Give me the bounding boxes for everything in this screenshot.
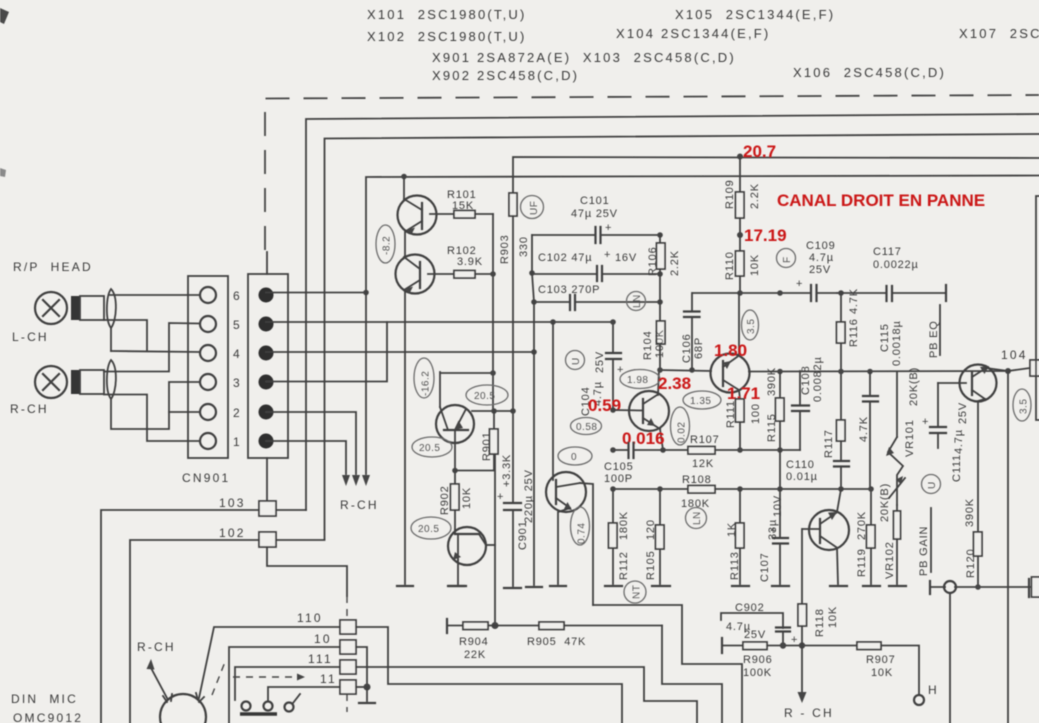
svg-text:PB EQ: PB EQ — [928, 320, 940, 358]
C109 label — [806, 240, 836, 276]
node C102/R106 — [657, 271, 663, 277]
svg-text:3.5: 3.5 — [746, 319, 757, 334]
wire 103 left long — [101, 510, 259, 723]
node 11/ground — [364, 684, 371, 691]
svg-text:+3.3K: +3.3K — [501, 454, 513, 487]
wire X901 top to stage rail — [441, 372, 493, 374]
svg-text:10V: 10V — [772, 495, 784, 517]
svg-text:25V: 25V — [744, 629, 766, 641]
svg-text:120: 120 — [645, 519, 657, 540]
node C115 top — [867, 369, 873, 375]
resistor R907 — [857, 642, 919, 695]
circled F — [777, 249, 796, 268]
wire bus2 — [325, 134, 1039, 539]
svg-text:NT: NT — [632, 585, 643, 599]
wire y370 mid — [659, 370, 711, 371]
svg-text:390K: 390K — [766, 367, 778, 396]
svg-text:R903: R903 — [499, 235, 511, 265]
ground X902 — [449, 585, 466, 587]
resistor R115 — [766, 367, 784, 450]
svg-text:5: 5 — [233, 318, 242, 332]
capacitor C110 — [786, 459, 849, 489]
resistor R904 — [447, 619, 539, 661]
capacitor C117 — [873, 246, 946, 301]
resistor R116 — [837, 288, 861, 420]
svg-text:R120: R120 — [965, 549, 977, 579]
filled pins — [259, 288, 274, 449]
resistor R113 — [726, 489, 744, 584]
wire 103 right to bus1 — [276, 509, 306, 511]
node R113 top — [737, 486, 743, 492]
svg-text:1: 1 — [233, 435, 242, 449]
svg-text:3.5: 3.5 — [1019, 399, 1030, 414]
capacitor C102 — [532, 249, 657, 281]
svg-text:68P: 68P — [693, 337, 705, 359]
svg-text:+: + — [796, 278, 803, 290]
svg-text:0: 0 — [571, 452, 577, 463]
capacitor C105 — [604, 443, 634, 485]
oval -16.2 — [414, 358, 434, 398]
svg-text:-8.2: -8.2 — [382, 236, 393, 255]
transistor X106 — [803, 489, 849, 584]
wire head2 shield to pin2/pin3 — [111, 382, 200, 429]
wire 11 left to switch — [268, 687, 340, 700]
transistor X102 — [396, 232, 435, 294]
wire 102 down to dashed — [267, 547, 347, 596]
svg-text:0.02: 0.02 — [677, 422, 688, 443]
svg-text:+: + — [604, 249, 611, 261]
transistor X107 — [938, 365, 1008, 533]
svg-text:12K: 12K — [692, 458, 714, 470]
oval 20.5 b — [412, 437, 452, 457]
svg-text:R109: R109 — [724, 180, 736, 210]
svg-text:R - CH: R - CH — [784, 706, 834, 720]
mic lead to R-CH arrow — [147, 659, 168, 698]
node X901 emitter — [452, 468, 458, 474]
svg-text:3: 3 — [233, 376, 242, 390]
svg-text:20K(B): 20K(B) — [879, 483, 891, 522]
svg-text:15K: 15K — [452, 200, 474, 212]
node R115 top — [777, 369, 783, 375]
svg-text:R906: R906 — [743, 654, 773, 666]
svg-text:R117: R117 — [823, 429, 835, 458]
ground VR102 — [889, 585, 906, 587]
dashed link to terminal strip — [346, 596, 348, 712]
wire X902 collector rail — [494, 454, 496, 625]
wire node104 down — [1007, 371, 1009, 723]
resistor R902 — [439, 471, 473, 531]
svg-text:R112: R112 — [618, 551, 630, 580]
svg-text:180K: 180K — [618, 511, 630, 540]
capacitor C109 — [796, 278, 837, 301]
svg-text:10K: 10K — [827, 606, 839, 628]
svg-text:LN: LN — [632, 294, 643, 308]
svg-text:C109: C109 — [806, 240, 836, 252]
svg-text:104: 104 — [1001, 348, 1028, 362]
svg-text:R902: R902 — [439, 486, 451, 516]
node x871/y489 — [868, 486, 874, 492]
wire bus3 — [513, 157, 1039, 193]
svg-text:0.01µ: 0.01µ — [786, 471, 818, 483]
svg-text:0.58: 0.58 — [576, 422, 597, 433]
svg-text:25V: 25V — [957, 402, 969, 424]
svg-text:+: + — [605, 222, 612, 234]
svg-text:+: + — [770, 525, 777, 537]
wire head2 top to pin5 — [104, 323, 200, 372]
svg-text:CANAL DROIT EN PANNE: CANAL DROIT EN PANNE — [777, 191, 985, 210]
switch contacts — [240, 694, 300, 714]
wire head1 low to pin4 — [104, 320, 147, 351]
oval 1.35 — [683, 391, 721, 409]
transistor X902 — [448, 527, 495, 584]
svg-text:R/P HEAD: R/P HEAD — [13, 260, 93, 274]
transistor X104 — [546, 472, 593, 605]
node R108 left — [610, 486, 616, 492]
capacitor C103 — [534, 284, 657, 310]
svg-text:R110: R110 — [724, 251, 736, 280]
PB GAIN label — [918, 508, 931, 576]
svg-text:R108: R108 — [682, 474, 712, 486]
terminal strip squares — [340, 620, 356, 694]
svg-text:270K: 270K — [856, 511, 868, 540]
oval 0.58 — [571, 418, 602, 435]
wire above connector — [266, 252, 268, 274]
wire 110 right staircase — [356, 627, 622, 723]
wire R101-R102 rail — [492, 214, 494, 411]
svg-text:2.38: 2.38 — [658, 374, 691, 393]
wire pin1 to R-CH arrow — [266, 441, 346, 474]
svg-text:R116: R116 — [848, 318, 860, 347]
wire pin4 row right — [266, 351, 534, 353]
transistor X103 — [613, 370, 669, 450]
resistor R105 — [645, 489, 664, 584]
ground X106 — [830, 585, 847, 587]
node 17.19 — [737, 232, 743, 238]
C115 label — [879, 320, 903, 366]
node R111 bottom — [737, 447, 743, 453]
wire 10 right to ground — [356, 647, 367, 687]
resistor R901 — [481, 411, 513, 487]
trimmer VR101 — [886, 367, 920, 505]
node C110 bottom — [838, 486, 844, 492]
ground R119 — [863, 585, 880, 587]
node x553 — [550, 319, 556, 325]
svg-text:1K: 1K — [726, 522, 738, 537]
wire connector bottom to 103 — [266, 458, 268, 501]
oval 20.5 a — [466, 385, 508, 405]
capacitor C108 — [792, 356, 824, 450]
svg-text:0.0018µ: 0.0018µ — [891, 320, 903, 366]
svg-text:10K: 10K — [749, 254, 761, 276]
svg-text:C106: C106 — [681, 334, 693, 364]
wire X104 collector staircase — [593, 605, 742, 723]
R-CH arrowheads — [342, 475, 370, 486]
svg-text:R119: R119 — [856, 548, 868, 577]
wire 11 right — [356, 686, 367, 688]
svg-text:C115: C115 — [879, 323, 891, 352]
svg-text:PB GAIN: PB GAIN — [918, 526, 930, 576]
capacitor C902 — [776, 628, 798, 647]
connector CN901 left block — [188, 276, 228, 458]
svg-text:H: H — [928, 683, 939, 697]
svg-text:+: + — [497, 491, 504, 503]
node R116 top — [838, 290, 844, 296]
resistor R112 — [609, 489, 631, 584]
resistor R108 — [613, 474, 841, 510]
svg-text:3.9K: 3.9K — [457, 256, 483, 268]
wire y489 to R119 — [841, 489, 871, 525]
svg-text:25V: 25V — [594, 351, 606, 373]
wire head1 shield — [110, 328, 112, 351]
coil lens R — [107, 360, 116, 399]
node R110 bottom — [737, 290, 743, 296]
node C107 top — [777, 486, 783, 492]
resistor R906 — [722, 642, 857, 679]
svg-text:25V: 25V — [809, 264, 831, 276]
svg-text:102: 102 — [219, 526, 246, 540]
oval 0 — [558, 447, 592, 465]
svg-text:C110: C110 — [786, 459, 815, 471]
svg-text:+: + — [922, 416, 929, 428]
svg-text:C105: C105 — [604, 461, 634, 473]
input terminal bar R906 — [721, 638, 723, 653]
resistor R117 — [823, 416, 870, 461]
svg-text:C101: C101 — [580, 195, 610, 207]
svg-text:F: F — [782, 256, 793, 263]
svg-text:2.2K: 2.2K — [669, 250, 681, 276]
svg-text:R113: R113 — [729, 551, 741, 580]
svg-text:X102 2SC1980(T,U): X102 2SC1980(T,U) — [367, 29, 527, 44]
node 104 — [1005, 368, 1011, 374]
circled NT — [624, 581, 646, 603]
svg-text:180K: 180K — [681, 498, 710, 510]
wire C-rail left — [532, 235, 534, 585]
wire 102 right to bus2 — [276, 539, 325, 541]
svg-text:DIN MIC: DIN MIC — [11, 692, 78, 706]
svg-text:10: 10 — [314, 632, 332, 646]
wire R905 staircase — [662, 626, 722, 723]
svg-text:OMC9012: OMC9012 — [13, 711, 83, 723]
svg-text:R118: R118 — [814, 608, 826, 637]
oval -8.2 — [376, 225, 395, 263]
wire pin2 to R-CH arrow — [266, 412, 356, 474]
svg-text:20.5: 20.5 — [418, 524, 439, 535]
grounds row — [448, 585, 464, 587]
node R116/R117 rail — [838, 369, 844, 375]
node X103 emitter row — [660, 447, 666, 453]
oval 20.5 c — [411, 517, 451, 539]
wire bus4 down to R-CH arrow — [365, 293, 367, 475]
svg-text:330: 330 — [518, 236, 530, 257]
svg-text:LN: LN — [692, 511, 703, 525]
svg-text:C102 47µ: C102 47µ — [538, 252, 592, 264]
svg-text:0.0082µ: 0.0082µ — [812, 356, 824, 402]
resistor R119 — [856, 511, 875, 584]
DIN MIC circle — [160, 693, 206, 723]
capacitor C107 — [759, 489, 788, 584]
svg-text:10K: 10K — [871, 667, 893, 679]
svg-text:R905 47K: R905 47K — [527, 636, 586, 648]
svg-text:UF: UF — [529, 201, 540, 215]
svg-text:C108: C108 — [800, 366, 812, 396]
svg-text:22K: 22K — [464, 649, 486, 661]
resistor R110 — [724, 235, 761, 293]
resistor R106 — [647, 235, 681, 276]
svg-text:C111: C111 — [951, 454, 963, 482]
wire bus4 — [366, 176, 1039, 293]
wire pin2 row left — [169, 411, 200, 413]
svg-text:20.5: 20.5 — [474, 391, 495, 402]
svg-text:X104 2SC1344(E,F): X104 2SC1344(E,F) — [616, 26, 770, 41]
svg-text:103: 103 — [219, 496, 246, 510]
R-CH output arrow — [784, 646, 834, 721]
svg-text:100P: 100P — [604, 473, 633, 485]
svg-text:1.35: 1.35 — [690, 396, 711, 407]
svg-text:R901: R901 — [481, 432, 493, 462]
capacitor C115 — [863, 372, 878, 490]
wire 10 left — [229, 647, 340, 723]
svg-text:20.5: 20.5 — [419, 443, 440, 454]
wire X102 emitter rail to ground — [404, 290, 406, 584]
C902 bracket — [721, 602, 783, 641]
svg-text:U: U — [927, 481, 938, 489]
svg-text:CN901: CN901 — [182, 471, 230, 485]
resistor R118 — [798, 529, 839, 646]
svg-text:C901: C901 — [517, 521, 529, 551]
svg-text:U: U — [571, 357, 582, 365]
parts list text — [367, 7, 1039, 83]
wire X901 collector row y411 — [472, 410, 513, 412]
oval 0.74 — [571, 507, 590, 545]
terminal 103 square — [259, 501, 276, 516]
wire C117 row — [841, 292, 886, 294]
wire x553 rail to X104 base — [552, 322, 554, 480]
svg-text:R111: R111 — [725, 400, 737, 428]
svg-text:+: + — [791, 634, 798, 646]
svg-text:R105: R105 — [645, 551, 657, 581]
svg-text:110: 110 — [297, 611, 323, 625]
svg-text:R-CH: R-CH — [340, 498, 379, 512]
wire pin4 row — [111, 351, 200, 352]
svg-text:100: 100 — [750, 403, 762, 424]
svg-text:111: 111 — [308, 652, 333, 666]
svg-text:C107: C107 — [759, 553, 771, 583]
wire 111 right staircase — [356, 667, 697, 723]
wire y371 right segment — [749, 370, 1008, 373]
capacitor C901 — [497, 469, 535, 586]
node C105 left — [610, 447, 616, 453]
svg-text:0.59: 0.59 — [588, 396, 621, 415]
resistor R104 — [642, 274, 666, 370]
resistor R101 — [430, 189, 493, 218]
node R120 bottom — [975, 584, 981, 590]
terminal 104 square — [1008, 360, 1039, 376]
coil lens L — [107, 289, 116, 328]
wire R903 rail down — [512, 216, 514, 503]
ground C901 — [504, 587, 521, 589]
node C101/R106 — [657, 232, 663, 238]
node C103 left — [531, 299, 537, 305]
node x782 — [779, 450, 781, 489]
svg-text:VR101: VR101 — [904, 419, 916, 457]
svg-text:2: 2 — [233, 406, 242, 420]
ground X104 — [550, 585, 566, 587]
pin numbers — [233, 289, 242, 449]
ground R113 — [732, 585, 749, 587]
svg-text:20K(B): 20K(B) — [908, 367, 920, 406]
wire pin6 to bus4 riser — [266, 292, 366, 294]
terminal 102 square — [259, 532, 276, 547]
svg-text:47µ 25V: 47µ 25V — [571, 208, 618, 220]
svg-text:2.2K: 2.2K — [749, 183, 761, 209]
terminal H — [914, 683, 939, 705]
head L-CH symbol — [35, 292, 104, 324]
oval 3.5 mid — [742, 310, 759, 340]
svg-text:1.98: 1.98 — [627, 375, 648, 386]
svg-text:100K: 100K — [743, 667, 772, 679]
ground cap rail — [526, 586, 542, 588]
svg-text:L-CH: L-CH — [12, 330, 49, 344]
dashed switch actuator — [212, 662, 305, 695]
svg-text:100K: 100K — [654, 329, 666, 358]
ground R112 — [605, 585, 622, 587]
node y293/x780 — [777, 290, 783, 296]
node R118 bottom — [799, 642, 805, 648]
svg-text:R907: R907 — [866, 654, 896, 666]
svg-text:R-CH: R-CH — [10, 402, 49, 416]
resistor R120 — [964, 498, 982, 587]
svg-text:R904: R904 — [459, 636, 489, 648]
ground X102 rail — [397, 585, 413, 587]
svg-text:VR102: VR102 — [884, 541, 896, 579]
svg-text:R-CH: R-CH — [137, 640, 176, 654]
oval 3.5 right — [1013, 389, 1031, 421]
wire pin5 row right — [266, 321, 613, 323]
circled LN 2 — [686, 508, 707, 529]
resistor R109 — [724, 157, 761, 235]
svg-text:4: 4 — [233, 347, 242, 361]
svg-text:20.7: 20.7 — [743, 142, 776, 161]
wire y293 row — [693, 292, 811, 294]
svg-text:4.7K: 4.7K — [858, 416, 870, 442]
wire 110 left to mic — [199, 627, 340, 698]
svg-text:6: 6 — [233, 289, 242, 303]
node R904 junction — [492, 622, 499, 629]
svg-text:R106: R106 — [647, 247, 659, 277]
right edge small terminal — [1029, 577, 1039, 597]
scan edge artifact — [0, 168, 6, 177]
svg-text:X107 2SC: X107 2SC — [959, 26, 1039, 41]
svg-text:4.7K: 4.7K — [848, 288, 860, 314]
svg-text:X106 2SC458(C,D): X106 2SC458(C,D) — [793, 65, 946, 80]
transistor X901 — [436, 372, 474, 470]
wire 111 left to switch — [235, 667, 340, 700]
connector right block — [248, 274, 288, 458]
resistor R903 — [499, 193, 530, 264]
wire y450 row — [613, 449, 688, 451]
node X103 base — [610, 407, 616, 413]
capacitor C104 — [580, 322, 624, 416]
transistor X101 — [398, 177, 437, 235]
PB EQ label — [928, 305, 940, 358]
right edge connector bracket — [1036, 196, 1039, 420]
resistor R102 — [428, 245, 493, 278]
capacitor C106 — [681, 293, 705, 370]
node R115 bottom — [777, 447, 783, 453]
circled U mid — [566, 351, 585, 370]
transistor X105 — [711, 293, 750, 399]
svg-text:16V: 16V — [615, 252, 637, 264]
